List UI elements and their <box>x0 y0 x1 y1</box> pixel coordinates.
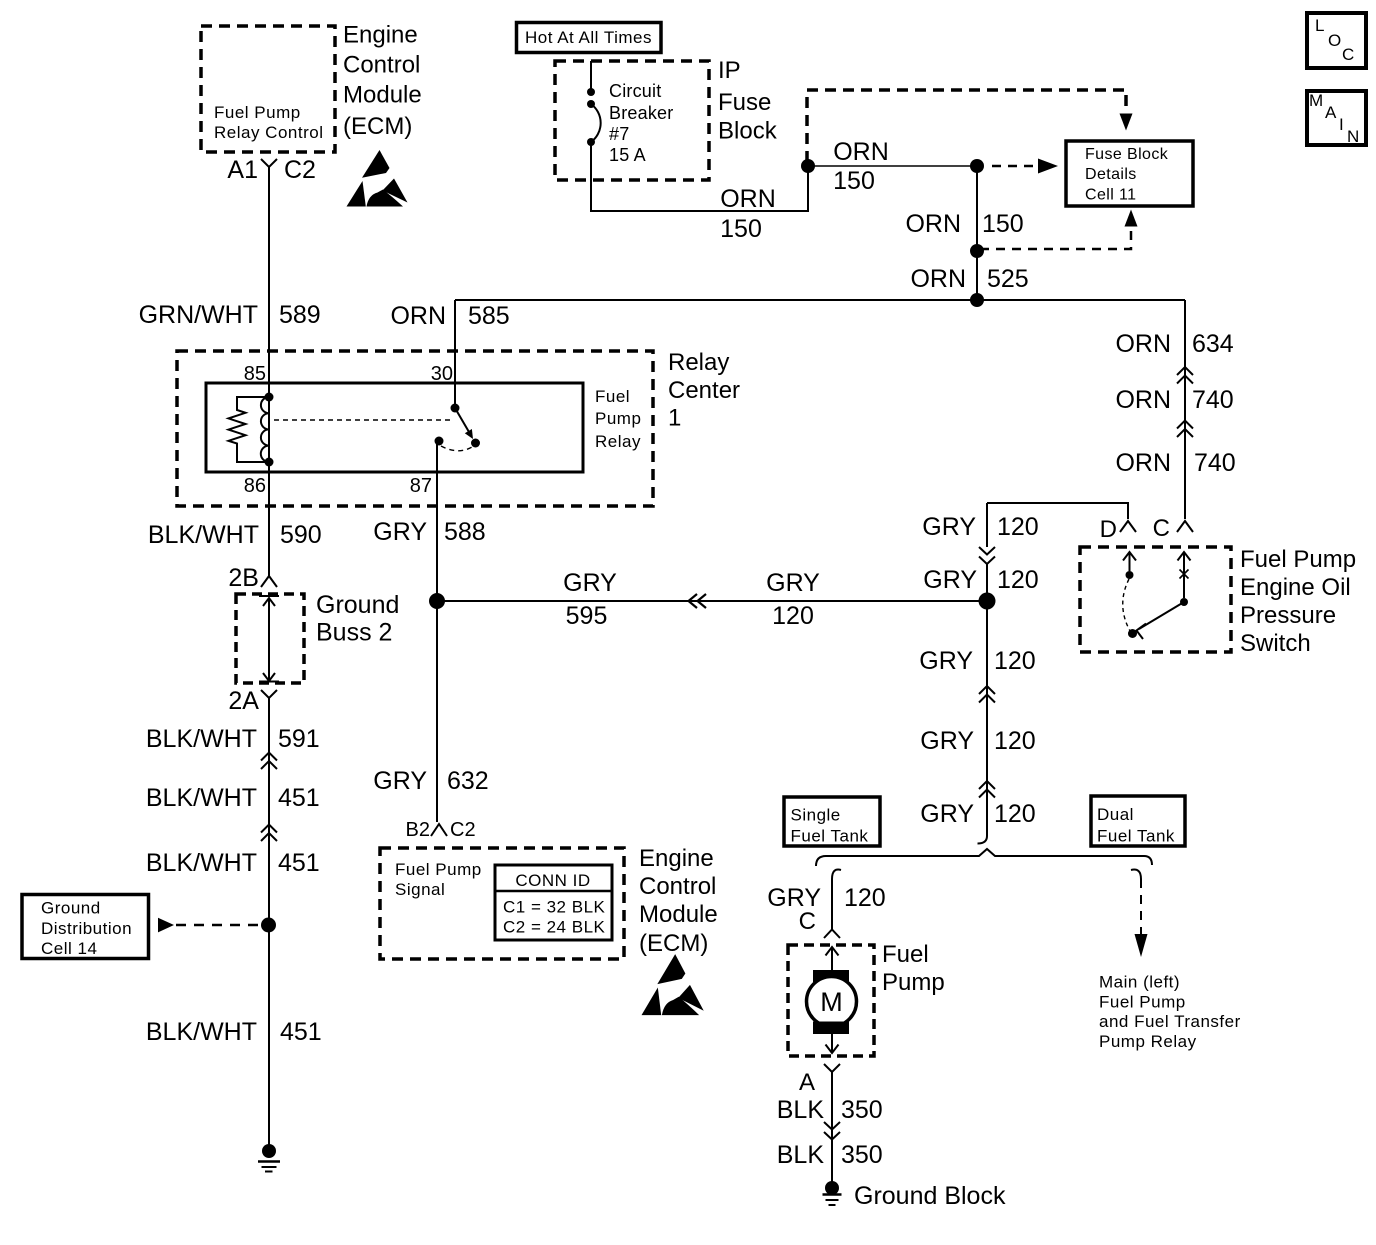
svg-text:451: 451 <box>278 784 320 812</box>
svg-text:A1: A1 <box>227 156 258 184</box>
svg-text:GRY: GRY <box>920 800 974 828</box>
inline connector (BLK/WHT 451/451) <box>261 825 277 842</box>
svg-text:ORN: ORN <box>833 138 889 166</box>
label ORN 150 (breaker output) <box>720 185 776 243</box>
wire ORN 150 vertical <box>976 166 978 251</box>
label GRY 120 (feed 1) <box>919 647 1035 675</box>
label GRY 120 (feed 2) <box>920 727 1035 755</box>
option split brace <box>816 849 1152 866</box>
svg-text:451: 451 <box>278 849 320 877</box>
label GRY 120 (pump) <box>767 884 885 912</box>
svg-text:L: L <box>1315 16 1325 35</box>
svg-text:120: 120 <box>994 800 1036 828</box>
label ORN 150 (vertical) <box>905 210 1023 238</box>
wire ORN 150 from circuit breaker <box>591 142 808 211</box>
svg-text:C2: C2 <box>284 156 316 184</box>
ground block symbol <box>823 1181 842 1205</box>
svg-text:15 A: 15 A <box>609 145 646 165</box>
svg-text:GRY: GRY <box>563 569 617 597</box>
svg-text:Engine Oil: Engine Oil <box>1240 574 1351 601</box>
svg-text:2A: 2A <box>228 687 259 715</box>
svg-text:BLK/WHT: BLK/WHT <box>146 1018 257 1046</box>
svg-text:Hot At All Times: Hot At All Times <box>525 28 652 47</box>
svg-text:120: 120 <box>997 513 1039 541</box>
svg-text:120: 120 <box>772 602 814 630</box>
label Fuel Pump <box>882 941 945 996</box>
svg-text:Ground: Ground <box>41 899 101 918</box>
ground symbol (left) <box>258 1144 280 1172</box>
ESD susceptibility symbol (top) <box>347 150 408 207</box>
Fuel Pump Signal ECM dashed box <box>380 848 624 959</box>
svg-text:590: 590 <box>280 521 322 549</box>
svg-text:C: C <box>799 908 816 935</box>
svg-text:Ground Block: Ground Block <box>854 1182 1006 1210</box>
junction node (fuse block right) <box>970 159 984 173</box>
svg-text:150: 150 <box>982 210 1024 238</box>
box Dual Fuel Tank <box>1091 796 1185 846</box>
pressure switch internals <box>1123 552 1191 639</box>
svg-text:350: 350 <box>841 1141 883 1169</box>
connector pin C (pump) <box>799 908 840 938</box>
wire GRY 595 <box>437 600 987 602</box>
junction node GRY 595 <box>429 593 445 609</box>
dashed reference link to Ground Distribution <box>158 918 262 933</box>
label GRY 632 <box>373 767 488 795</box>
svg-text:M: M <box>1309 91 1324 110</box>
svg-text:Engine: Engine <box>639 845 714 872</box>
inline connector (feed 1/2) <box>979 686 995 703</box>
svg-text:Cell 14: Cell 14 <box>41 939 97 958</box>
svg-text:87: 87 <box>410 475 432 497</box>
label GRY 595 <box>563 569 617 630</box>
svg-text:Single: Single <box>791 806 841 825</box>
svg-text:Pump Relay: Pump Relay <box>1099 1032 1197 1051</box>
svg-text:A: A <box>1325 103 1337 122</box>
svg-text:Details: Details <box>1085 166 1137 183</box>
IP fuse block dashed outline <box>807 90 1126 162</box>
label ORN 740 (first) <box>1115 386 1233 414</box>
svg-text:Fuse Block: Fuse Block <box>1085 146 1169 163</box>
wire ORN 150 horizontal in fuse block <box>808 165 977 167</box>
wire GRY 120 branch to pin D <box>987 503 1128 519</box>
junction node ORN 525 <box>970 244 984 258</box>
connector B2 C2 <box>406 819 476 841</box>
LOC page tab <box>1307 13 1366 68</box>
svg-text:BLK: BLK <box>777 1141 825 1169</box>
dual tank branch hook <box>1131 870 1141 879</box>
svg-text:120: 120 <box>994 727 1036 755</box>
relay coil <box>261 393 274 467</box>
svg-text:Main (left): Main (left) <box>1099 973 1180 992</box>
svg-text:C2 = 24 BLK: C2 = 24 BLK <box>503 918 606 937</box>
label Fuel Pump Relay <box>595 387 641 451</box>
svg-text:Relay: Relay <box>668 349 729 376</box>
svg-text:Module: Module <box>343 82 422 109</box>
svg-text:O: O <box>1328 31 1342 50</box>
svg-text:GRY: GRY <box>920 727 974 755</box>
svg-text:M: M <box>820 987 843 1017</box>
svg-text:1: 1 <box>668 405 681 432</box>
svg-text:GRY: GRY <box>922 513 976 541</box>
wire BLK 350 <box>831 1080 833 1182</box>
label Relay Center 1 <box>668 349 740 432</box>
connector pin C <box>1153 515 1193 542</box>
svg-text:ORN: ORN <box>1115 330 1171 358</box>
label BLK/WHT 451 (second) <box>146 849 320 877</box>
box Hot At All Times <box>517 23 662 53</box>
wire GRN/WHT 589 <box>268 176 270 397</box>
svg-text:588: 588 <box>444 518 486 546</box>
label BLK/WHT 451 (first) <box>146 784 320 812</box>
fuel pump dashed box <box>788 945 874 1056</box>
svg-text:Buss 2: Buss 2 <box>316 619 392 647</box>
connector 2A <box>228 687 277 715</box>
svg-text:595: 595 <box>566 602 608 630</box>
label BLK/WHT 451 (third) <box>146 1018 322 1046</box>
inline connector (BLK/WHT 591/451) <box>261 753 277 770</box>
label GRY 588 <box>373 518 485 546</box>
MAIN page tab <box>1307 91 1366 146</box>
svg-text:IP: IP <box>718 57 741 84</box>
svg-text:Circuit: Circuit <box>609 81 661 101</box>
svg-text:ORN: ORN <box>1115 386 1171 414</box>
direction chevrons on GRY 595 <box>689 594 707 608</box>
fuel pump relay K1 body <box>206 383 583 472</box>
svg-text:ORN: ORN <box>390 302 446 330</box>
svg-text:Pressure: Pressure <box>1240 602 1336 629</box>
svg-text:Fuel: Fuel <box>882 941 929 968</box>
junction node (fuse block left) <box>801 159 815 173</box>
junction node on ORN rail <box>970 293 984 307</box>
label ORN 740 (second) <box>1115 449 1235 477</box>
svg-text:N: N <box>1347 127 1360 146</box>
fuel pump motor M <box>807 947 857 1053</box>
dashed arrow to Fuse Block Details (left side) <box>992 159 1058 174</box>
relay coil to armature dashed link <box>274 419 450 421</box>
svg-text:C: C <box>1342 45 1355 64</box>
wire ORN 585 drop to relay pin 30 <box>454 300 456 407</box>
svg-text:86: 86 <box>244 475 266 497</box>
svg-text:GRY: GRY <box>373 518 427 546</box>
svg-text:150: 150 <box>720 215 762 243</box>
svg-text:Fuse: Fuse <box>718 89 771 116</box>
label Engine Control Module (ECM) top <box>343 22 422 141</box>
connector A1 C2 labels <box>227 156 316 184</box>
wire GRY 120 pressure switch stem upper <box>986 503 988 547</box>
svg-text:(ECM): (ECM) <box>343 113 412 140</box>
wire end curl above split <box>978 836 988 844</box>
relay coil suppression resistor <box>229 397 270 462</box>
svg-text:589: 589 <box>279 301 321 329</box>
label ORN 585 <box>390 302 509 330</box>
wire GRY 120 to fuel pump <box>831 879 833 929</box>
svg-text:Fuel Tank: Fuel Tank <box>791 827 869 846</box>
connector pin A (pump) <box>799 1064 840 1096</box>
svg-text:85: 85 <box>244 363 266 385</box>
wire GRY 588 <box>436 444 438 601</box>
label Ground Buss 2 <box>316 591 399 647</box>
svg-text:GRY: GRY <box>919 647 973 675</box>
svg-text:Fuel Pump: Fuel Pump <box>1240 546 1356 573</box>
connector pin D <box>1100 516 1136 543</box>
wire BLK/WHT 451 to ground <box>268 925 270 1148</box>
svg-text:BLK/WHT: BLK/WHT <box>148 521 259 549</box>
svg-text:Module: Module <box>639 901 718 928</box>
arrow to dual tank relay <box>1135 934 1148 957</box>
svg-text:(ECM): (ECM) <box>639 930 708 957</box>
wire BLK/WHT 591 <box>268 710 270 925</box>
relay switch armature <box>435 404 481 451</box>
svg-text:2B: 2B <box>228 564 259 592</box>
svg-text:ORN: ORN <box>905 210 961 238</box>
label GRN/WHT 589 <box>139 301 321 329</box>
label IP Fuse Block <box>718 57 778 145</box>
svg-text:BLK/WHT: BLK/WHT <box>146 849 257 877</box>
svg-text:ORN: ORN <box>720 185 776 213</box>
svg-text:A: A <box>799 1069 815 1096</box>
svg-text:ORN: ORN <box>1115 449 1171 477</box>
box Single Fuel Tank <box>784 797 880 846</box>
label GRY 120 (stem 2) <box>923 566 1038 594</box>
label GRY 120 (feed 3) <box>920 800 1035 828</box>
label Circuit Breaker #7 15 A <box>609 81 673 165</box>
svg-text:BLK: BLK <box>777 1096 825 1124</box>
svg-text:740: 740 <box>1192 386 1234 414</box>
svg-text:Relay: Relay <box>595 432 641 451</box>
label GRY 120 (on 595 line) <box>766 569 820 630</box>
label ORN 634 <box>1115 330 1233 358</box>
fuel pump / engine oil pressure switch dashed box <box>1080 547 1231 652</box>
svg-text:Ground: Ground <box>316 591 399 619</box>
svg-text:740: 740 <box>1194 449 1236 477</box>
label BLK 350 (first) <box>777 1096 883 1124</box>
svg-text:Block: Block <box>718 118 778 145</box>
inline connector (feed 2/3) <box>979 781 995 798</box>
svg-text:Center: Center <box>668 377 740 404</box>
wire ORN 634 drop <box>1184 300 1186 519</box>
inline connector (GRY 120/120 down) <box>979 547 995 564</box>
box Ground Distribution Cell 14 <box>22 895 149 959</box>
svg-text:BLK/WHT: BLK/WHT <box>146 784 257 812</box>
svg-text:Relay Control: Relay Control <box>214 123 324 142</box>
dashed arrow into Fuse Block Details bottom <box>980 210 1138 250</box>
svg-text:Switch: Switch <box>1240 630 1311 657</box>
svg-text:Fuel Pump: Fuel Pump <box>395 860 482 879</box>
ESD susceptibility symbol (bottom) <box>642 954 704 1015</box>
Ground Buss 2 dashed box <box>236 594 304 683</box>
label Engine Control Module (ECM) bottom <box>639 845 718 957</box>
single tank branch hook <box>832 870 841 879</box>
svg-text:120: 120 <box>997 566 1039 594</box>
svg-text:150: 150 <box>833 167 875 195</box>
label BLK/WHT 590 <box>148 521 322 549</box>
label BLK/WHT 591 <box>146 725 320 753</box>
svg-text:Control: Control <box>343 52 420 79</box>
svg-text:451: 451 <box>280 1018 322 1046</box>
wire BLK/WHT 590 <box>268 462 270 576</box>
label ORN 525 <box>910 265 1028 293</box>
svg-text:and Fuel Transfer: and Fuel Transfer <box>1099 1012 1241 1031</box>
box Fuse Block Details Cell 11 <box>1066 141 1193 206</box>
dashed arrow into Fuse Block Details top <box>1120 114 1133 131</box>
wire ORN 525 <box>976 251 978 300</box>
svg-text:Fuel Pump: Fuel Pump <box>1099 993 1186 1012</box>
wire GRY 632 <box>436 601 438 822</box>
svg-text:Dual: Dual <box>1097 805 1134 824</box>
svg-text:Pump: Pump <box>882 969 945 996</box>
svg-text:120: 120 <box>994 647 1036 675</box>
junction node on BLK/WHT 451 <box>261 918 276 933</box>
connector 2B <box>228 564 277 592</box>
svg-text:Breaker: Breaker <box>609 103 673 123</box>
svg-text:Distribution: Distribution <box>41 919 132 938</box>
svg-text:591: 591 <box>278 725 320 753</box>
inline connector (BLK 350/350) <box>824 1122 840 1140</box>
label ORN 150 (horizontal) <box>833 138 889 195</box>
svg-text:GRY: GRY <box>373 767 427 795</box>
svg-text:Fuel Tank: Fuel Tank <box>1097 827 1175 846</box>
wire ORN rail <box>455 299 1185 301</box>
connector fork at ECM pin A1/C2 <box>261 159 277 176</box>
svg-text:Fuel: Fuel <box>595 387 630 406</box>
svg-text:120: 120 <box>844 884 886 912</box>
svg-text:585: 585 <box>468 302 510 330</box>
svg-text:Signal: Signal <box>395 880 445 899</box>
svg-text:Control: Control <box>639 873 716 900</box>
label GRY 120 (stem 1) <box>922 513 1038 541</box>
svg-text:B2: B2 <box>406 819 430 841</box>
wire GRY 120 tank feed <box>986 601 988 836</box>
svg-text:525: 525 <box>987 265 1029 293</box>
svg-text:C: C <box>1153 515 1170 542</box>
svg-text:30: 30 <box>431 363 453 385</box>
svg-text:GRN/WHT: GRN/WHT <box>139 301 258 329</box>
junction node GRY 120 / 595 <box>979 593 996 610</box>
dashed wire to dual tank relay <box>1140 879 1142 935</box>
svg-text:I: I <box>1339 115 1344 134</box>
svg-text:#7: #7 <box>609 124 629 144</box>
svg-text:CONN ID: CONN ID <box>515 871 590 890</box>
inline connector (ORN 634/740) <box>1177 367 1193 384</box>
Relay Center 1 dashed box <box>177 351 653 506</box>
inline connector (ORN 740/740) <box>1177 421 1193 438</box>
svg-text:GRY: GRY <box>766 569 820 597</box>
svg-text:GRY: GRY <box>923 566 977 594</box>
svg-text:350: 350 <box>841 1096 883 1124</box>
svg-text:BLK/WHT: BLK/WHT <box>146 725 257 753</box>
label Main (left) Fuel Pump and Fuel Transfer Pump Relay <box>1099 973 1241 1052</box>
circuit breaker dashed box <box>555 61 709 180</box>
svg-text:ORN: ORN <box>910 265 966 293</box>
ECM connector box (Fuel Pump Relay Control) <box>201 26 335 152</box>
CONN ID table <box>495 865 612 940</box>
svg-text:Cell 11: Cell 11 <box>1085 187 1136 204</box>
label BLK 350 (second) <box>777 1141 883 1169</box>
label Fuel Pump Engine Oil Pressure Switch <box>1240 546 1356 657</box>
circuit breaker #7 symbol <box>587 61 601 146</box>
svg-text:D: D <box>1100 516 1117 543</box>
svg-text:634: 634 <box>1192 330 1234 358</box>
svg-text:632: 632 <box>447 767 489 795</box>
svg-text:Engine: Engine <box>343 22 418 49</box>
wire GRY 120 stem to junction <box>986 564 988 601</box>
svg-text:Fuel Pump: Fuel Pump <box>214 103 301 122</box>
svg-text:C1 = 32 BLK: C1 = 32 BLK <box>503 898 606 917</box>
svg-text:C2: C2 <box>450 819 476 841</box>
svg-text:Pump: Pump <box>595 409 641 428</box>
